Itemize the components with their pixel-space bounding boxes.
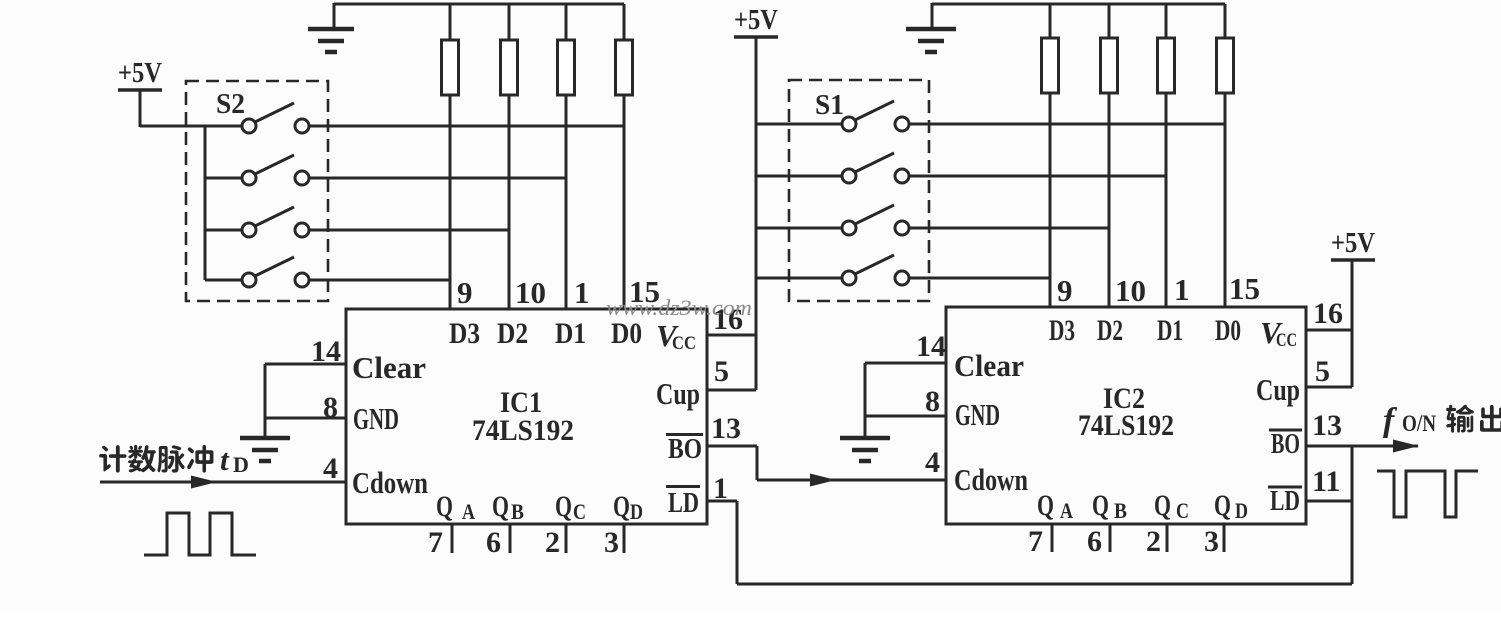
svg-text:5: 5 <box>714 355 729 388</box>
ground G4 (IC2 GND) <box>840 438 890 461</box>
svg-text:D3: D3 <box>1049 314 1075 347</box>
wire +5V vertical feed (IC1/S1) <box>755 37 758 390</box>
wire S2 row 1 left <box>140 125 242 128</box>
wire S1 row 1 to D3 column <box>909 123 1225 126</box>
svg-text:15: 15 <box>1229 271 1260 306</box>
pin stub QB (IC1 pin 6) <box>509 524 512 553</box>
svg-text:D: D <box>1235 498 1248 523</box>
wire GND pin 8 (IC2) <box>865 415 946 418</box>
svg-text:2: 2 <box>1146 525 1161 558</box>
ground G2 (top rail right) <box>906 29 956 52</box>
svg-text:9: 9 <box>457 275 473 310</box>
wire rail drop to ground 2 <box>931 3 934 29</box>
svg-text:C: C <box>573 499 586 524</box>
svg-text:74LS192: 74LS192 <box>472 414 574 447</box>
svg-text:16: 16 <box>1313 297 1343 330</box>
resistor R3 (pull-up, bank 1) <box>558 40 575 95</box>
waveform symbol: input positive pulses <box>144 513 256 555</box>
resistor R7 (pull-up, bank 2) <box>1158 38 1175 93</box>
svg-text:Cdown: Cdown <box>352 465 428 500</box>
wire rail to resistor 1 <box>449 4 452 40</box>
svg-text:D1: D1 <box>1157 314 1183 347</box>
svg-text:+5V: +5V <box>734 4 778 36</box>
svg-text:A: A <box>462 499 475 524</box>
resistor R6 (pull-up, bank 2) <box>1101 38 1118 93</box>
svg-text:LD: LD <box>668 488 699 519</box>
resistor R1 (pull-up, bank 1) <box>442 40 459 95</box>
svg-text:D2: D2 <box>497 317 528 350</box>
wire resistor 3 to IC1 pin <box>565 95 568 310</box>
switch bank S2 dashed box <box>186 81 328 301</box>
svg-text:A: A <box>1060 498 1073 523</box>
svg-text:Q: Q <box>1037 489 1054 522</box>
wire S2 row 3 left <box>205 229 242 232</box>
switch S1-3 <box>842 205 909 235</box>
svg-text:5: 5 <box>1315 355 1330 388</box>
wire S2 row 2 left <box>205 177 242 180</box>
pin stub QD (IC2 pin 3) <box>1223 524 1226 552</box>
svg-text:2: 2 <box>545 526 560 559</box>
label 计数脉冲 t_D <box>99 442 249 477</box>
pin stub QC (IC2 pin 2) <box>1166 524 1169 552</box>
waveform symbol: output negative pulses <box>1377 471 1478 517</box>
svg-text:11: 11 <box>1312 465 1340 498</box>
switch S1-1 <box>842 101 909 131</box>
arrowhead output <box>1393 440 1419 453</box>
+5V supply (middle) <box>734 4 778 37</box>
svg-text:CC: CC <box>672 333 696 354</box>
op IC1 74LS192 box <box>346 309 707 524</box>
overline LD (IC1) <box>666 485 700 488</box>
svg-text:C: C <box>1176 498 1189 523</box>
svg-text:BO: BO <box>668 434 702 465</box>
wire resistor 2 to IC1 pin <box>508 95 511 310</box>
svg-text:Cdown: Cdown <box>954 462 1028 497</box>
wire LD1 down <box>736 501 739 584</box>
wire LD pin 11 (IC2) <box>1306 500 1352 503</box>
resistor R5 (pull-up, bank 2) <box>1042 38 1059 93</box>
switch S1-4 <box>842 255 909 285</box>
svg-text:D3: D3 <box>449 317 480 350</box>
+5V supply (right) <box>1331 227 1375 260</box>
resistor R2 (pull-up, bank 1) <box>501 40 518 95</box>
ground G3 (IC1 GND) <box>240 438 290 461</box>
wire top rail right bank <box>932 3 1225 6</box>
svg-text:Cup: Cup <box>656 376 700 411</box>
svg-text:3: 3 <box>604 526 619 559</box>
wire +5V vertical feed (IC2) <box>1351 260 1354 387</box>
svg-text:Q: Q <box>1214 489 1231 522</box>
switch S2-4 <box>242 257 309 287</box>
svg-text:www.dz3w.com: www.dz3w.com <box>606 295 752 320</box>
pin stub QB (IC2 pin 6) <box>1109 524 1112 552</box>
wire S1 row 3 left <box>756 227 842 230</box>
svg-text:6: 6 <box>1087 525 1102 558</box>
wire rail to resistor 3 <box>565 4 568 40</box>
svg-text:13: 13 <box>1312 409 1342 442</box>
wire top rail left bank <box>334 3 624 6</box>
wire count-pulse input to Cdown (IC1 pin 4) <box>100 481 346 484</box>
+5V supply (S2) <box>118 57 162 90</box>
svg-text:LD: LD <box>1270 486 1300 517</box>
svg-text:D0: D0 <box>611 317 642 350</box>
pin stub QC (IC1 pin 2) <box>565 524 568 553</box>
switch S2-1 <box>242 103 309 133</box>
svg-text:Cup: Cup <box>1256 372 1300 407</box>
svg-text:14: 14 <box>916 330 946 363</box>
wire S2 row 3 to D1 column <box>309 229 509 232</box>
wire S2 row 4 to D0 column <box>309 279 450 282</box>
svg-text:+5V: +5V <box>1331 227 1375 259</box>
wire S1 row 3 to D1 column <box>909 227 1109 230</box>
wire BO pin 13 (IC2) output <box>1306 445 1418 448</box>
switch S2-2 <box>242 155 309 185</box>
ground G1 (top-left rail) <box>308 29 354 52</box>
wire Clear-GND junction down (IC2) <box>864 363 867 438</box>
svg-text:B: B <box>1114 498 1127 523</box>
svg-text:3: 3 <box>1204 525 1219 558</box>
svg-text:4: 4 <box>323 452 338 485</box>
svg-text:1: 1 <box>574 275 590 310</box>
svg-text:9: 9 <box>1057 273 1073 308</box>
svg-text:+5V: +5V <box>118 57 162 89</box>
svg-text:13: 13 <box>711 412 741 445</box>
wire BO1 down <box>756 446 759 480</box>
wire rail to resistor 4 <box>623 4 626 40</box>
wire S1 row 4 left <box>756 277 842 280</box>
svg-text:B: B <box>511 499 524 524</box>
arrowhead BO1 to IC2 <box>810 474 836 487</box>
wire bottom bus LD1-LD2-BO2 <box>737 583 1352 586</box>
overline BO (IC1) <box>666 433 703 436</box>
svg-text:10: 10 <box>515 275 546 310</box>
wire Vcc pin 16 (IC1) <box>707 334 756 337</box>
wire S1 row 4 to D0 column <box>909 277 1050 280</box>
svg-text:D: D <box>630 499 643 524</box>
svg-text:Q: Q <box>1092 489 1109 522</box>
svg-text:CC: CC <box>1276 330 1297 351</box>
wire Clear pin 14 (IC2) <box>865 362 946 365</box>
wire BO1 to Cdown (IC2 pin 4) <box>757 479 946 482</box>
svg-text:Q: Q <box>555 490 572 523</box>
svg-text:Q: Q <box>436 490 453 523</box>
switch S2-3 <box>242 207 309 237</box>
wire BO2 down to bottom bus <box>1351 446 1354 584</box>
svg-text:6: 6 <box>486 526 501 559</box>
resistor R4 (pull-up, bank 1) <box>616 40 633 95</box>
svg-text:S1: S1 <box>815 90 844 121</box>
svg-text:74LS192: 74LS192 <box>1078 409 1174 442</box>
wire resistor 7 to IC2 pin <box>1165 93 1168 308</box>
wire GND pin 8 (IC1) <box>265 417 346 420</box>
arrowhead input <box>191 476 217 489</box>
wire resistor 8 to IC2 pin <box>1224 93 1227 308</box>
wire resistor 5 to IC2 pin <box>1049 93 1052 308</box>
svg-text:BO: BO <box>1271 429 1300 460</box>
wire S1 row 1 left <box>756 123 842 126</box>
svg-text:O/N: O/N <box>1402 411 1436 436</box>
svg-text:GND: GND <box>353 401 399 436</box>
pin stub QD (IC1 pin 3) <box>623 524 626 553</box>
wire rail to resistor 8 <box>1224 4 1227 38</box>
op IC2 74LS192 box <box>946 307 1306 524</box>
wire resistor 6 to IC2 pin <box>1108 93 1111 308</box>
wire Clear pin 14 (IC1) <box>265 363 346 366</box>
wire LD pin 1 (IC1) <box>707 500 737 503</box>
wire S1 row 2 to D2 column <box>909 175 1166 178</box>
svg-text:7: 7 <box>428 526 443 559</box>
svg-text:D2: D2 <box>1097 314 1123 347</box>
svg-text:D1: D1 <box>555 317 586 350</box>
svg-text:D: D <box>233 452 249 477</box>
wire rail to resistor 5 <box>1049 4 1052 38</box>
wire rail drop to ground <box>333 3 336 28</box>
wire Vcc pin 16 (IC2) <box>1306 329 1352 332</box>
label f O/N 输出 <box>1383 402 1501 439</box>
wire S2 row 1 to D3 column <box>309 125 624 128</box>
svg-text:Q: Q <box>613 490 630 523</box>
wire Clear-GND junction down <box>264 364 267 438</box>
switch bank S1 dashed box <box>789 80 929 301</box>
svg-text:10: 10 <box>1115 273 1146 308</box>
svg-text:Q: Q <box>1154 489 1171 522</box>
wire S2 row 4 left <box>205 279 242 282</box>
pin stub QA (IC2 pin 7) <box>1051 524 1054 552</box>
svg-text:1: 1 <box>1174 272 1190 307</box>
svg-text:D0: D0 <box>1215 314 1241 347</box>
wire resistor 4 to IC1 pin <box>623 95 626 310</box>
wire rail to resistor 7 <box>1165 4 1168 38</box>
wire rail to resistor 6 <box>1108 4 1111 38</box>
wire S2 row 2 to D2 column <box>309 177 566 180</box>
svg-text:8: 8 <box>925 385 940 418</box>
wire resistor 1 to IC1 pin <box>449 95 452 310</box>
svg-text:7: 7 <box>1028 525 1043 558</box>
wire S2 feed bus <box>204 126 207 280</box>
svg-text:t: t <box>220 442 230 477</box>
svg-text:Clear: Clear <box>954 348 1024 383</box>
svg-text:Clear: Clear <box>352 350 426 385</box>
svg-text:Q: Q <box>492 490 509 523</box>
wire +5V down to S2 row 1 <box>139 90 142 127</box>
overline BO (IC2) <box>1269 429 1302 432</box>
wire BO pin 13 (IC1) <box>707 445 757 448</box>
wire Cup pin 5 (IC2) <box>1306 386 1352 389</box>
wire Cup pin 5 (IC1) <box>707 389 756 392</box>
svg-text:S2: S2 <box>216 89 245 120</box>
overline LD (IC2) <box>1268 486 1302 489</box>
svg-text:GND: GND <box>955 397 1000 432</box>
wire S1 row 2 left <box>756 175 842 178</box>
svg-text:4: 4 <box>925 446 940 479</box>
pin stub QA (IC1 pin 7) <box>451 524 454 553</box>
wire rail to resistor 2 <box>508 4 511 40</box>
switch S1-2 <box>842 153 909 183</box>
resistor R8 (pull-up, bank 2) <box>1217 38 1234 93</box>
